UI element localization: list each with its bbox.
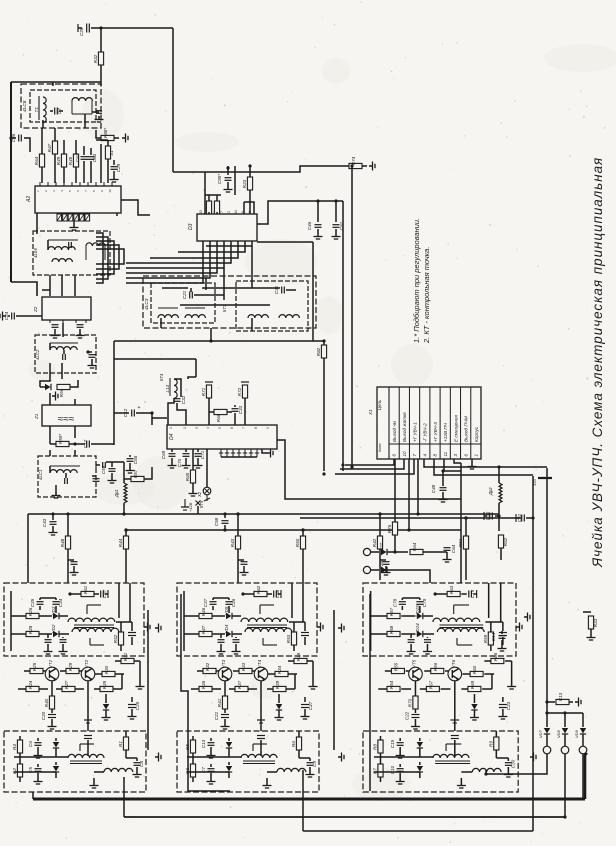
inductor core xyxy=(50,342,78,344)
ground xyxy=(144,623,150,632)
node xyxy=(99,26,102,29)
wire xyxy=(385,566,387,569)
svg-text:D4: D4 xyxy=(169,433,175,440)
wire xyxy=(414,709,416,713)
wire xyxy=(114,358,196,360)
wire xyxy=(19,777,21,782)
wire xyxy=(74,399,76,405)
wire X1 pin bundle xyxy=(345,459,394,465)
amplifier stage UHF-2 lower box xyxy=(177,731,319,792)
wire xyxy=(105,710,107,714)
svg-text:R7: R7 xyxy=(372,768,377,774)
text +Г УВЧ-3 xyxy=(433,422,438,442)
wire xyxy=(121,674,123,689)
wire D3 pin 3 xyxy=(126,241,217,273)
wire xyxy=(212,598,214,600)
resistor R55 xyxy=(391,662,404,673)
resistor R31 xyxy=(121,652,134,663)
wire xyxy=(14,771,56,773)
wire xyxy=(107,140,109,146)
capacitor C32 xyxy=(174,395,187,404)
node xyxy=(241,592,244,595)
wire xyxy=(118,583,120,618)
wire xyxy=(278,694,280,703)
wire xyxy=(192,753,194,764)
wire xyxy=(87,681,89,731)
pin number D4 5 xyxy=(218,427,222,429)
wire xyxy=(210,747,212,752)
wire xyxy=(500,548,502,560)
capacitor C58x xyxy=(103,462,106,468)
wire xyxy=(49,275,51,296)
wire xyxy=(61,373,63,379)
wire xyxy=(454,681,456,731)
svg-text:R8: R8 xyxy=(372,744,377,750)
wire xyxy=(286,688,295,690)
wire xyxy=(49,393,51,399)
inductor L4 xyxy=(52,259,72,262)
svg-text:C10: C10 xyxy=(390,765,395,774)
wire xyxy=(131,637,133,645)
svg-text:C34: C34 xyxy=(58,598,63,607)
wire X1 pin bundle xyxy=(424,459,547,467)
ground xyxy=(382,569,391,575)
wire xyxy=(62,644,64,648)
wire xyxy=(100,28,102,52)
wire xyxy=(41,167,43,183)
capacitor C20 xyxy=(41,711,56,720)
wire xyxy=(323,341,325,345)
wire xyxy=(251,246,253,288)
text A2 xyxy=(26,196,32,203)
svg-text:VT2: VT2 xyxy=(84,659,89,668)
capacitor C5 xyxy=(28,767,42,773)
wire xyxy=(75,140,77,154)
capacitor C34 xyxy=(53,598,64,607)
pin number D4 2 xyxy=(183,427,187,429)
capacitor C22 xyxy=(404,711,419,720)
svg-text:5: 5 xyxy=(218,427,222,429)
svg-text:R57: R57 xyxy=(389,607,394,616)
wire xyxy=(88,351,92,353)
resistor R71 xyxy=(201,385,212,398)
resistor R52 xyxy=(498,535,508,548)
capacitor C68 xyxy=(274,589,280,598)
wire xyxy=(495,731,497,737)
text КТ4 xyxy=(159,373,164,381)
wire xyxy=(91,443,114,445)
resistor R47 xyxy=(47,141,58,154)
tap bracket xyxy=(80,744,94,751)
text 6 xyxy=(463,454,468,457)
resistor R29 xyxy=(66,662,79,673)
svg-text:R28: R28 xyxy=(28,625,33,634)
wire xyxy=(235,637,237,638)
node xyxy=(484,772,487,775)
svg-text:R35: R35 xyxy=(102,680,107,689)
text 8 xyxy=(433,454,438,457)
capacitor C23 xyxy=(499,701,511,710)
ground xyxy=(369,162,375,171)
resistor R60 xyxy=(470,665,483,676)
wire xyxy=(224,681,226,696)
text Z2 xyxy=(33,306,38,313)
wire xyxy=(8,315,10,317)
svg-text:C21: C21 xyxy=(214,711,219,720)
ground xyxy=(498,713,507,719)
wire xyxy=(42,120,44,128)
wire xyxy=(184,615,199,617)
diode VD27 xyxy=(379,542,387,555)
wire xyxy=(498,503,500,531)
wire xyxy=(387,551,408,553)
resistor R2 xyxy=(12,764,23,777)
svg-text:6: 6 xyxy=(230,427,234,429)
svg-text:R47: R47 xyxy=(47,143,52,152)
wire xyxy=(41,128,43,154)
svg-text:R29: R29 xyxy=(68,662,73,671)
text КТ3 xyxy=(222,304,227,312)
wire xyxy=(27,514,29,583)
text +Г УВЧ-1 xyxy=(412,422,417,442)
wire xyxy=(501,631,503,634)
capacitor C xyxy=(383,562,390,565)
wire xyxy=(75,688,84,690)
wave symbol Z1 xyxy=(58,414,75,425)
test point KT5 xyxy=(181,499,189,510)
coupling wire loop 2 xyxy=(96,237,108,279)
wire D3 pin 4 xyxy=(126,241,224,268)
wire xyxy=(96,139,108,141)
wire xyxy=(220,634,222,638)
T bar xyxy=(95,461,97,469)
ground xyxy=(217,648,226,654)
svg-text:133: 133 xyxy=(532,479,537,486)
wire xyxy=(244,202,254,214)
wire xyxy=(260,681,262,731)
diode VD1 xyxy=(53,742,59,748)
inductor L6 xyxy=(72,628,119,632)
wire xyxy=(302,549,304,583)
wire xyxy=(47,644,49,648)
wire vertical right of D4 xyxy=(460,463,462,583)
wire xyxy=(11,633,26,635)
svg-text:4LC8: 4LC8 xyxy=(22,100,28,112)
wire xyxy=(507,767,509,771)
text X2 xyxy=(197,491,202,498)
amplifier stage UHF-1 lower box xyxy=(4,731,146,792)
resistor R69 xyxy=(468,680,481,691)
pin D4 2 xyxy=(225,449,229,457)
shield box 4LC8 outer xyxy=(21,84,101,128)
inductor core xyxy=(169,378,171,396)
node xyxy=(497,514,500,517)
resistor R9 xyxy=(488,737,499,750)
resistor R33b xyxy=(239,662,252,673)
wire xyxy=(36,213,38,234)
inductor L4 xyxy=(68,618,115,622)
capacitor C24 xyxy=(4,311,14,320)
wire xyxy=(84,114,86,128)
svg-text:VD4: VD4 xyxy=(224,624,229,633)
svg-text:R69: R69 xyxy=(470,680,475,689)
ground xyxy=(48,723,57,729)
capacitor C xyxy=(45,640,52,643)
wire xyxy=(74,450,76,456)
wire xyxy=(70,380,78,387)
inductor L19 xyxy=(472,768,501,772)
inductor core xyxy=(185,307,205,309)
test point KT xyxy=(257,720,265,723)
wire xyxy=(248,688,257,690)
capacitor C48 xyxy=(431,484,447,493)
svg-text:VD8: VD8 xyxy=(556,729,561,738)
svg-text:R53: R53 xyxy=(286,634,291,643)
svg-text:C30: C30 xyxy=(510,759,515,768)
wire xyxy=(485,621,502,623)
wire xyxy=(267,771,277,773)
capacitor C61 xyxy=(333,221,345,230)
inductor core xyxy=(70,761,102,764)
resistor R45b xyxy=(230,536,241,549)
svg-text:C15: C15 xyxy=(390,739,395,748)
wire xyxy=(461,688,468,690)
ground xyxy=(443,556,452,562)
X1 column line xyxy=(449,387,451,459)
svg-text:D3: D3 xyxy=(188,223,194,230)
pin number D3 2 xyxy=(227,211,231,213)
wire xyxy=(192,777,194,782)
wire xyxy=(37,747,39,752)
wire xyxy=(83,161,85,183)
text 3 xyxy=(453,454,458,457)
wire xyxy=(47,634,49,638)
diode VD1 xyxy=(45,384,51,390)
amplifier stage UHF-2 top box xyxy=(177,583,317,656)
node xyxy=(124,528,127,531)
ground xyxy=(224,186,233,192)
wire xyxy=(546,713,548,727)
svg-text:R70: R70 xyxy=(407,698,412,707)
wire xyxy=(11,81,101,83)
wire xyxy=(419,738,421,741)
wire xyxy=(371,633,387,635)
wire D4 output to X1 xyxy=(277,440,461,499)
wire xyxy=(24,670,30,672)
capacitor C6 xyxy=(28,741,42,747)
wire xyxy=(174,379,181,397)
node xyxy=(334,199,337,202)
crystal filter Z1 xyxy=(42,405,91,426)
svg-text:C95*: C95* xyxy=(217,174,222,184)
node xyxy=(416,512,419,515)
resistor R65 xyxy=(185,470,196,483)
wire X1 pin bundle xyxy=(444,459,461,471)
X1 column line xyxy=(439,387,441,459)
wire xyxy=(484,515,487,517)
pin 5 A2 xyxy=(68,182,72,192)
svg-text:Е смещения: Е смещения xyxy=(453,415,458,442)
wire xyxy=(335,201,337,222)
resistor R53 xyxy=(286,632,297,645)
svg-text:C22: C22 xyxy=(404,711,409,720)
node xyxy=(209,339,212,342)
svg-text:4L05: 4L05 xyxy=(33,248,38,258)
pin number D3 6 xyxy=(241,211,245,213)
wire xyxy=(67,514,69,536)
wire xyxy=(18,688,26,690)
svg-text:R9: R9 xyxy=(488,741,493,747)
wire B3 routing xyxy=(369,594,371,791)
pin number D3 13 xyxy=(199,210,203,214)
wire xyxy=(371,569,379,571)
capacitor C41 xyxy=(84,736,92,739)
pin 10 A2 xyxy=(108,182,112,193)
svg-text:R82: R82 xyxy=(316,347,321,356)
wire xyxy=(401,688,411,690)
svg-text:R57: R57 xyxy=(133,469,138,478)
wire xyxy=(96,130,101,138)
resistor R33 xyxy=(588,616,598,629)
ground xyxy=(76,332,85,338)
ground xyxy=(423,648,432,654)
svg-text:Корпус: Корпус xyxy=(474,426,479,442)
ground xyxy=(133,771,142,777)
resistor R76 xyxy=(387,522,398,535)
wire xyxy=(401,598,403,600)
wire xyxy=(188,377,196,379)
text 4LC2 xyxy=(35,349,40,360)
wire xyxy=(197,670,203,672)
wire xyxy=(114,340,324,342)
resistor R40 xyxy=(44,696,55,709)
resistor R26 xyxy=(26,607,39,618)
wire xyxy=(547,712,583,714)
svg-text:C63: C63 xyxy=(92,153,97,162)
wire xyxy=(507,758,509,761)
node xyxy=(316,199,319,202)
inductor core xyxy=(74,625,114,628)
wire xyxy=(237,549,239,583)
wire xyxy=(177,403,186,425)
wire xyxy=(234,166,236,195)
ground xyxy=(524,613,530,622)
svg-text:C20: C20 xyxy=(41,711,46,720)
wire xyxy=(131,697,133,702)
wire xyxy=(37,738,39,741)
node xyxy=(248,164,251,167)
node xyxy=(464,516,467,519)
polarity mark xyxy=(138,405,141,411)
wire xyxy=(410,634,412,638)
wire xyxy=(370,591,372,651)
wire D3 pin 2 xyxy=(126,241,210,278)
ground xyxy=(207,752,216,758)
wire xyxy=(63,350,65,354)
inductor L12 xyxy=(279,315,299,318)
diode VD16 xyxy=(471,704,477,710)
wire xyxy=(61,275,63,296)
capacitor C3 xyxy=(93,479,100,482)
capacitor C95 xyxy=(217,174,232,184)
ground xyxy=(207,778,216,784)
wire xyxy=(460,778,462,782)
wire xyxy=(502,637,504,645)
svg-text:C27: C27 xyxy=(308,701,313,710)
svg-text:R45: R45 xyxy=(68,156,73,165)
capacitor C50 xyxy=(485,511,492,520)
svg-text:1: 1 xyxy=(169,427,173,429)
capacitor C28 lead T xyxy=(77,24,79,32)
wire xyxy=(294,674,296,689)
coupling wire loop 1 xyxy=(96,233,103,283)
inductor L13 xyxy=(165,379,177,398)
filter box 4LC3 left xyxy=(151,283,215,323)
wire xyxy=(243,202,245,214)
wire xyxy=(206,449,208,487)
wire xyxy=(454,740,456,756)
text 11 xyxy=(443,451,448,456)
X1 column line xyxy=(398,387,400,459)
node xyxy=(563,711,566,714)
inductor L1 T1 xyxy=(34,97,46,123)
wire xyxy=(232,633,242,635)
text 4LC3 xyxy=(144,298,150,310)
wire xyxy=(94,688,100,690)
capacitor C76 xyxy=(499,633,507,636)
pin D4 3 xyxy=(231,449,235,457)
wire xyxy=(406,670,409,672)
svg-text:C14: C14 xyxy=(491,632,496,641)
svg-text:14: 14 xyxy=(234,210,238,214)
ground xyxy=(317,623,323,632)
node xyxy=(434,592,437,595)
ground xyxy=(52,492,61,498)
svg-text:7: 7 xyxy=(220,211,224,213)
wire xyxy=(107,159,109,183)
node xyxy=(51,512,54,515)
wire xyxy=(92,111,99,113)
svg-text:R32: R32 xyxy=(93,54,98,63)
resistor R30 xyxy=(102,665,115,676)
pin D4 1 xyxy=(219,449,223,457)
diode VD26 xyxy=(379,560,387,573)
resistor R32b xyxy=(203,662,216,673)
text Выход чм xyxy=(392,420,397,442)
resistor R74 xyxy=(349,156,362,168)
diode VD4 xyxy=(224,624,232,637)
wire xyxy=(113,171,115,176)
svg-text:C21: C21 xyxy=(182,290,187,299)
wire spine to Z2 xyxy=(11,282,37,296)
wire xyxy=(583,611,591,613)
resistor R44 xyxy=(118,536,129,549)
wire xyxy=(485,770,487,774)
resistor R39 xyxy=(273,680,286,691)
transistor VT5 xyxy=(409,659,423,681)
wire xyxy=(414,681,416,696)
pin circle VD7 xyxy=(543,746,551,754)
wire xyxy=(288,673,297,675)
resistor R58 xyxy=(387,625,400,636)
wire xyxy=(74,275,76,296)
svg-text:8: 8 xyxy=(254,427,258,429)
ground xyxy=(49,529,58,535)
transistor VT1 xyxy=(45,659,59,681)
wire xyxy=(192,736,194,740)
pin number D4 1 xyxy=(169,427,173,429)
wire X1 pin bundle xyxy=(454,459,461,463)
